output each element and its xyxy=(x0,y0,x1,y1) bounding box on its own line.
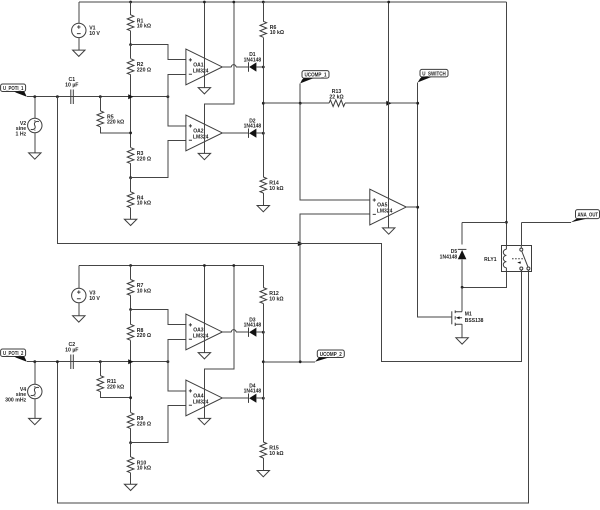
node A R1/R2 junction xyxy=(129,43,132,46)
ground V2 xyxy=(29,153,41,159)
svg-text:LM324: LM324 xyxy=(193,68,209,74)
node V4 tap xyxy=(33,360,36,363)
ground OA4 xyxy=(198,418,210,424)
wire R15 to ground xyxy=(262,458,264,471)
node D1 bus junction xyxy=(262,66,265,69)
wire rail to R6 xyxy=(262,2,264,21)
node rail OA5 power xyxy=(387,1,390,4)
node D3 bus junction xyxy=(262,331,265,334)
wire node A to OA1 plus input xyxy=(131,45,186,60)
diode D2 1N4148 xyxy=(244,118,262,137)
ground M1 xyxy=(456,338,468,344)
svg-text:U_POTI_2: U_POTI_2 xyxy=(3,351,24,357)
ground R15 xyxy=(257,471,269,477)
node R5 bottom junction xyxy=(129,132,132,135)
wire OA3 power from rail to ground xyxy=(203,266,205,353)
ground OA2 xyxy=(198,153,210,159)
wire POTI_1 return long route xyxy=(57,97,521,362)
svg-text:220 Ω: 220 Ω xyxy=(137,421,151,427)
svg-text:RLY1: RLY1 xyxy=(484,257,497,263)
wire relay coil bottom return xyxy=(462,272,506,287)
node R11 bottom junction xyxy=(129,396,132,399)
svg-text:1N4148: 1N4148 xyxy=(244,124,262,130)
node C R3/R4 junction xyxy=(129,176,132,179)
ground R10 xyxy=(124,484,136,490)
resistor R10 xyxy=(127,457,151,473)
resistor R12 xyxy=(260,288,284,304)
wire R9 to node E xyxy=(130,429,132,443)
wire node D to R8 xyxy=(130,310,132,325)
wire drain node to M1 xyxy=(461,287,463,311)
wire D2 to bus xyxy=(256,132,263,134)
wire UCOMP_1 to OA5 plus xyxy=(300,103,370,200)
wire R11 bottom to divider xyxy=(100,392,130,398)
capacitor C2 xyxy=(65,342,78,369)
wire node A to R2 xyxy=(130,45,132,59)
wire relay common to ANA_OUT xyxy=(521,222,571,246)
svg-text:LM324: LM324 xyxy=(193,333,209,339)
net U_SWITCH label xyxy=(418,69,448,82)
ground OA5 xyxy=(383,228,395,234)
net UCOMP_2 label xyxy=(315,350,344,362)
node D2 bus junction xyxy=(262,132,265,135)
wire OA3 output with hop xyxy=(222,331,248,333)
arrow crossing main net over divider xyxy=(128,94,133,99)
wire R5 from main net xyxy=(99,97,101,111)
wire R12 bus down to R15 xyxy=(262,304,264,443)
arrow crossing OA5 minus over poti return xyxy=(298,241,303,246)
wire lower +10V rail xyxy=(79,265,263,267)
wire OA4 power to ground xyxy=(203,416,205,419)
wire R3 to node C xyxy=(130,164,132,178)
ground V1 xyxy=(73,50,85,56)
svg-text:220 Ω: 220 Ω xyxy=(137,333,151,339)
ground R4 xyxy=(124,219,136,225)
svg-text:1N4148: 1N4148 xyxy=(244,389,262,395)
svg-text:1N4148: 1N4148 xyxy=(440,254,458,260)
resistor R7 xyxy=(127,280,151,296)
wire lower rail corner to R12 xyxy=(262,266,264,288)
resistor R9 xyxy=(127,413,151,429)
wire D3 to bus xyxy=(256,331,263,333)
source V2 sine xyxy=(16,118,42,137)
wire D5 to drain node xyxy=(461,259,463,287)
svg-text:10 kΩ: 10 kΩ xyxy=(269,186,283,192)
resistor R15 xyxy=(260,442,284,458)
node UCOMP_2 tap xyxy=(299,360,302,363)
node UCOMP_1 bus tee xyxy=(262,102,265,105)
diode D3 1N4148 xyxy=(244,317,262,337)
wire top +10V rail xyxy=(79,1,506,3)
node lower main net to opamp column xyxy=(167,360,170,363)
wire R11 from main net xyxy=(99,362,101,376)
node UCOMP_1 tap xyxy=(299,102,302,105)
node rail-R1 junction xyxy=(129,1,132,4)
wire UCOMP_1 flag to bus xyxy=(299,83,301,103)
arrow crossing R13 wire over OA5 power xyxy=(386,101,391,106)
op-amp OA5 xyxy=(370,189,406,225)
svg-text:1 Hz: 1 Hz xyxy=(16,131,27,137)
ground V3 xyxy=(73,316,85,322)
voltage source V3 xyxy=(72,288,101,302)
wire main net to OA4 plus xyxy=(168,362,186,391)
node rail OA1 power xyxy=(203,1,206,4)
wire OA5 minus to UCOMP_2 xyxy=(300,214,370,362)
diode D5 1N4148 xyxy=(440,249,467,260)
node bottom rail tap xyxy=(56,360,59,363)
op-amp OA1 xyxy=(186,49,222,85)
wire node E to OA4 minus input xyxy=(131,406,186,443)
wire OA5 power from rail xyxy=(388,2,390,228)
svg-text:OA2: OA2 xyxy=(193,128,204,134)
resistor R13 22k horizontal xyxy=(329,89,345,106)
svg-text:10 µF: 10 µF xyxy=(65,83,78,89)
svg-text:22 kΩ: 22 kΩ xyxy=(329,95,343,101)
net U_POTI_2 label xyxy=(1,349,27,362)
wire main net U_POTI_1 xyxy=(27,96,168,98)
wire D1 to bus xyxy=(256,66,263,68)
wire V3 riser xyxy=(78,266,80,289)
wire OA5 output xyxy=(406,206,418,208)
svg-text:10 kΩ: 10 kΩ xyxy=(137,288,151,294)
op-amp OA3 xyxy=(186,314,222,350)
svg-text:10 kΩ: 10 kΩ xyxy=(137,466,151,472)
svg-text:10 kΩ: 10 kΩ xyxy=(269,296,283,302)
svg-text:10 kΩ: 10 kΩ xyxy=(270,30,284,36)
resistor R11 xyxy=(97,376,124,392)
ground OA1 xyxy=(198,88,210,94)
capacitor C1 xyxy=(65,77,78,104)
svg-text:220 kΩ: 220 kΩ xyxy=(107,120,124,126)
wire relay NO contact to bottom rail xyxy=(57,272,528,503)
svg-text:10 µF: 10 µF xyxy=(65,348,78,354)
relay RLY1 xyxy=(484,246,531,273)
op-amp OA4 xyxy=(186,380,222,416)
wire node C to OA2 minus input xyxy=(131,141,186,178)
wire V1 to ground xyxy=(78,38,80,51)
resistor R1 xyxy=(127,15,151,31)
wire OA3 minus to main net xyxy=(168,339,186,361)
svg-text:1N4148: 1N4148 xyxy=(244,323,262,329)
wire V4 riser xyxy=(34,362,36,385)
wire OA2 output xyxy=(222,132,248,134)
net U_POTI_1 label xyxy=(1,84,27,97)
diode D1 1N4148 xyxy=(244,52,262,71)
svg-text:1N4148: 1N4148 xyxy=(244,58,262,64)
node lower rail OA3 power xyxy=(203,264,206,267)
node UCOMP_2 bus tee xyxy=(262,360,265,363)
svg-text:220 Ω: 220 Ω xyxy=(137,68,151,74)
arrow crossing lower main net over divider xyxy=(128,359,133,364)
wire main net to OA2 plus xyxy=(168,97,186,126)
resistor R6 xyxy=(260,21,284,37)
node drain junction xyxy=(461,286,464,289)
wire V2 riser xyxy=(34,97,36,119)
wire OA2 power to ground xyxy=(203,151,205,154)
wire relay feed from rail xyxy=(505,2,507,246)
svg-text:OA1: OA1 xyxy=(193,62,204,68)
svg-text:OA3: OA3 xyxy=(193,327,204,333)
svg-text:BSS138: BSS138 xyxy=(465,318,484,324)
net UCOMP_1 label xyxy=(300,71,329,84)
svg-text:LM324: LM324 xyxy=(377,209,393,215)
source V4 sine xyxy=(5,384,42,403)
svg-text:OA4: OA4 xyxy=(193,393,204,399)
wire R4 to ground xyxy=(130,208,132,219)
svg-text:U_POTI_1: U_POTI_1 xyxy=(3,86,24,92)
wire U_SWITCH vertical to gate xyxy=(418,82,452,317)
svg-text:LM324: LM324 xyxy=(193,399,209,405)
node R5 tap xyxy=(99,95,102,98)
node relay coil ANA junction xyxy=(505,221,508,224)
svg-text:OA5: OA5 xyxy=(377,202,388,208)
svg-text:M1: M1 xyxy=(465,312,472,318)
node E R9/R10 junction xyxy=(129,441,132,444)
resistor R14 xyxy=(260,177,284,193)
node U_SWITCH R13 junction xyxy=(416,102,419,105)
svg-text:ANA_OUT: ANA_OUT xyxy=(578,213,599,219)
wire node C to R4 xyxy=(130,178,132,192)
wire OA1 output with hop xyxy=(222,66,248,68)
svg-text:U_SWITCH: U_SWITCH xyxy=(422,71,446,77)
wire R10 to ground xyxy=(130,473,132,484)
transistor M1 BSS138 xyxy=(452,310,484,326)
ground OA3 xyxy=(198,353,210,359)
wire rail to R7 xyxy=(130,266,132,280)
resistor R4 xyxy=(127,192,151,208)
node D R7/R8 junction xyxy=(129,308,132,311)
svg-text:UCOMP_2: UCOMP_2 xyxy=(320,352,342,358)
voltage source V1 xyxy=(72,23,101,37)
wire UCOMP_2 stub xyxy=(263,361,315,363)
wire V2 to ground xyxy=(34,133,36,153)
op-amp OA2 xyxy=(186,115,222,151)
svg-text:220 kΩ: 220 kΩ xyxy=(107,384,124,390)
resistor R2 xyxy=(127,59,151,75)
wire OA2 power route to rail xyxy=(204,2,233,151)
svg-text:10 kΩ: 10 kΩ xyxy=(137,24,151,30)
wire main net U_POTI_2 xyxy=(27,361,168,363)
wire V1 riser xyxy=(78,2,80,23)
diode D4 1N4148 xyxy=(244,383,262,403)
node main net to opamp column xyxy=(167,95,170,98)
net ANA_OUT label xyxy=(571,210,600,223)
svg-text:LM324: LM324 xyxy=(193,134,209,140)
wire R5 bottom to divider xyxy=(100,127,130,133)
wire R1 to node A xyxy=(130,31,132,45)
wire V3 to ground xyxy=(78,303,80,316)
svg-text:UCOMP_1: UCOMP_1 xyxy=(305,73,327,79)
node lower rail OA4 power xyxy=(232,264,235,267)
wire rail to R1 xyxy=(130,2,132,15)
svg-text:10 kΩ: 10 kΩ xyxy=(137,201,151,207)
wire OA1 minus to main net xyxy=(168,74,186,96)
resistor R3 xyxy=(127,148,151,164)
node rail OA2 power xyxy=(232,1,235,4)
svg-text:10 V: 10 V xyxy=(89,31,100,37)
ground R14 xyxy=(257,206,269,212)
wire OA4 output xyxy=(222,397,248,399)
wire node E to R10 xyxy=(130,443,132,457)
wire OA1 power from rail to ground xyxy=(203,2,205,88)
wire M1 source to ground xyxy=(461,324,463,338)
svg-text:10 V: 10 V xyxy=(89,296,100,302)
wire UCOMP_1 bus to U_SWITCH node xyxy=(263,102,417,104)
wire node D to OA3 plus input xyxy=(131,310,186,325)
wire OA4 power route to rail xyxy=(204,266,233,416)
svg-text:10 kΩ: 10 kΩ xyxy=(269,451,283,457)
ground V4 xyxy=(29,418,41,424)
svg-text:220 Ω: 220 Ω xyxy=(137,156,151,162)
node R11 tap xyxy=(99,360,102,363)
wire R7 to node D xyxy=(130,296,132,310)
wire R14 to ground xyxy=(262,193,264,206)
node D4 bus junction xyxy=(262,397,265,400)
wire D4 to bus xyxy=(256,397,263,399)
node return tap xyxy=(56,95,59,98)
wire R8 to R9 through main net crossing xyxy=(130,340,132,412)
wire D5 branch top xyxy=(462,222,506,244)
node rail R6 junction xyxy=(262,1,265,4)
node OA5 output to U_SWITCH line xyxy=(416,206,419,209)
node lower rail R7 junction xyxy=(129,264,132,267)
wire V4 to ground xyxy=(34,399,36,419)
wire R6 bus down to R14 xyxy=(262,37,264,177)
node V2 tap xyxy=(33,95,36,98)
svg-text:300 mHz: 300 mHz xyxy=(5,397,26,403)
resistor R8 xyxy=(127,324,151,340)
wire R2 to R3 through main net crossing xyxy=(130,75,132,148)
resistor R5 xyxy=(97,111,124,127)
